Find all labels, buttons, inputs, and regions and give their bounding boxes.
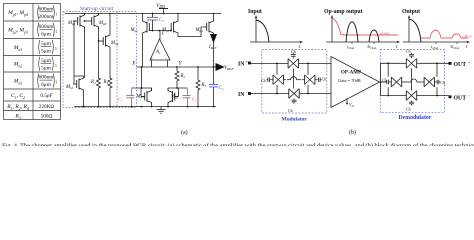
black decay curve — [409, 19, 421, 42]
svg-text:Mp1: Mp1 — [130, 28, 139, 33]
svg-text:X: X — [131, 61, 136, 67]
svg-text:6μm: 6μm — [41, 82, 52, 88]
chopper top (modulator) — [285, 59, 301, 69]
gate bus with node F — [149, 30, 171, 32]
input waveform plot — [248, 9, 303, 50]
output waveform plot — [402, 9, 473, 50]
Vref output tap — [216, 64, 234, 71]
resistor R3 — [196, 78, 200, 92]
svg-text:5μm: 5μm — [41, 41, 52, 47]
capacitor C4 (blue) — [209, 85, 218, 87]
input decay curve — [256, 20, 269, 42]
bottom rail — [251, 93, 286, 95]
chopper bottom (demodulator) — [404, 91, 420, 101]
clock stubs from rails to mid choppers — [276, 63, 278, 74]
svg-text:F: F — [161, 31, 165, 36]
axes — [250, 17, 301, 42]
input vertical at apex — [380, 63, 382, 95]
svg-text:C2: C2 — [192, 97, 197, 103]
top rail — [381, 62, 404, 64]
bottom rail — [381, 95, 404, 97]
svg-text:R5: R5 — [103, 80, 109, 85]
chopped hump 2 — [369, 30, 379, 42]
svg-text:200nm: 200nm — [39, 14, 55, 20]
svg-text:IN: IN — [238, 92, 245, 98]
svg-text:Mn1: Mn1 — [13, 45, 23, 52]
svg-text:Ch: Ch — [288, 108, 293, 113]
svg-text:tchop: tchop — [431, 44, 439, 50]
transistor Mp1 — [147, 22, 149, 33]
IN+ terminal — [238, 59, 251, 68]
svg-text:Ch: Ch — [406, 107, 411, 112]
svg-text:−: − — [165, 55, 168, 60]
svg-text:600nm: 600nm — [39, 6, 55, 12]
svg-text:5μm: 5μm — [41, 65, 52, 71]
device size table — [4, 4, 61, 120]
svg-text:+: + — [468, 60, 471, 65]
svg-text:Demodulator: Demodulator — [399, 115, 432, 121]
svg-text:(a): (a) — [181, 129, 188, 136]
transistor Mp6 — [88, 13, 99, 29]
transistor Mp5 — [74, 13, 85, 29]
svg-text:OP-AMP: OP-AMP — [341, 71, 361, 76]
chopper mid-left (demodulator) — [389, 77, 405, 87]
svg-text:220KΩ: 220KΩ — [39, 104, 55, 110]
clock stubs — [387, 63, 389, 76]
svg-text:1: 1 — [56, 13, 58, 17]
svg-text:5μm: 5μm — [41, 49, 52, 55]
svg-text:600nm: 600nm — [39, 75, 55, 81]
svg-text:Mn5: Mn5 — [65, 85, 74, 90]
IN- terminal — [238, 90, 251, 99]
modulator clock stubs with caps — [267, 53, 322, 104]
transistor Mn4 — [100, 33, 111, 49]
svg-text:Ch: Ch — [322, 77, 327, 82]
modulator dashed box — [262, 50, 327, 114]
svg-text:Ch: Ch — [291, 49, 296, 54]
svg-text:+: + — [151, 55, 154, 60]
svg-text:Op-amp output: Op-amp output — [324, 9, 363, 15]
svg-text:Mn1: Mn1 — [136, 95, 145, 100]
chopper bottom (modulator) — [286, 89, 302, 99]
(a) schematic — [63, 3, 234, 136]
svg-text:Mn2: Mn2 — [13, 62, 23, 69]
clipped figure caption at page bottom — [2, 142, 474, 149]
svg-text:Mn2: Mn2 — [170, 95, 179, 100]
svg-text:Mp2, Mp3: Mp2, Mp3 — [7, 28, 28, 35]
table value column: fractions with parens — [39, 6, 55, 88]
transistor Mn2 diode-connected — [168, 88, 188, 107]
svg-text:3tchop: 3tchop — [450, 44, 460, 50]
mid wire with hop — [404, 81, 410, 83]
chopper mid-right (demodulator) — [421, 77, 437, 87]
svg-text:Mp1, Mp4: Mp1, Mp4 — [7, 10, 28, 17]
svg-text:−: − — [468, 93, 471, 98]
chopper mid-right (modulator) — [302, 75, 318, 85]
clock coupling caps on mid leads (demodulator) — [387, 80, 440, 84]
modulator wires — [251, 63, 331, 93]
svg-text:VREF: VREF — [224, 65, 234, 71]
resistor R2 — [175, 69, 179, 83]
svg-text:C1: C1 — [118, 97, 123, 103]
bottom rail — [74, 106, 216, 108]
svg-text:Mn3: Mn3 — [13, 79, 23, 86]
OUT- terminal — [449, 93, 472, 102]
centre vertical between top and bottom choppers — [293, 69, 295, 89]
svg-text:A1: A1 — [155, 50, 161, 55]
svg-text:Vos: Vos — [349, 102, 355, 108]
op-amp output waveform plot — [324, 9, 400, 50]
op-amp A1 — [150, 39, 170, 67]
clock stub above top chopper — [411, 53, 413, 55]
chopped hump 1 — [346, 22, 358, 42]
capacitor C1 (red) — [126, 89, 134, 107]
svg-text:R1, R2, R4: R1, R2, R4 — [6, 104, 29, 111]
svg-text:Ch: Ch — [406, 49, 411, 54]
svg-text:600nm: 600nm — [39, 24, 55, 30]
clock stub below bottom chopper — [411, 101, 413, 103]
OUT+ terminal — [449, 60, 472, 69]
ground — [157, 107, 166, 114]
svg-text:Ch: Ch — [382, 77, 387, 82]
svg-text:Y: Y — [179, 61, 183, 67]
svg-text:1: 1 — [56, 30, 58, 34]
svg-text:3: 3 — [55, 64, 57, 68]
Vdd supply symbol — [84, 3, 215, 14]
svg-text:3: 3 — [55, 47, 57, 51]
svg-text:6μm: 6μm — [41, 31, 52, 37]
Iref current source arrow — [208, 35, 217, 51]
svg-text:Start-up circuit: Start-up circuit — [80, 6, 114, 12]
svg-text:C4: C4 — [219, 86, 224, 91]
svg-text:C3: C3 — [159, 18, 164, 23]
svg-text:500Ω: 500Ω — [41, 114, 53, 120]
svg-text:OUT: OUT — [454, 62, 467, 68]
svg-text:t: t — [466, 45, 468, 50]
svg-text:Modulator: Modulator — [282, 117, 308, 123]
transistor Mn5 diode-connected — [65, 20, 84, 106]
big parens drawn as curves — [38, 5, 55, 87]
offset source stub — [346, 98, 348, 103]
svg-text:Ch: Ch — [261, 78, 266, 83]
top rail — [251, 62, 286, 64]
start-up circuit dashed box — [63, 12, 137, 108]
svg-text:IREF: IREF — [208, 45, 217, 50]
X-Y output wire — [137, 67, 217, 107]
demodulator wires — [381, 53, 449, 106]
resistor R4 — [97, 76, 101, 90]
op-amp triangle — [331, 57, 380, 109]
svg-text:Gain = 70dB: Gain = 70dB — [338, 78, 361, 83]
transistor Mp4 — [203, 19, 214, 35]
svg-text:Output: Output — [402, 9, 420, 15]
svg-text:3tchop: 3tchop — [367, 44, 377, 50]
svg-text:(b): (b) — [349, 129, 356, 136]
svg-text:Input: Input — [248, 9, 262, 15]
svg-text:C1, C2: C1, C2 — [11, 93, 25, 100]
red decay-to-offset curve — [332, 18, 398, 35]
startup resistor bottom leads — [99, 90, 111, 107]
red residue curve — [421, 30, 468, 38]
svg-text:R3: R3 — [201, 83, 207, 88]
chopper top (demodulator) — [404, 59, 420, 69]
capacitor C2 (red) — [183, 89, 191, 107]
svg-text:Ch: Ch — [440, 80, 445, 85]
capacitor C3 (blue) — [147, 17, 158, 20]
transistor Mp3 — [171, 22, 173, 33]
top supply rail — [65, 13, 221, 15]
transistor Mn1 diode-connected — [132, 88, 152, 107]
svg-text:offset: offset — [380, 31, 390, 36]
startup wires — [74, 14, 110, 79]
centre vertical — [411, 68, 413, 90]
junction dots modulator — [276, 63, 309, 95]
apex to mid-left chopper with clock cap — [381, 81, 387, 83]
svg-text:IN: IN — [238, 62, 245, 68]
svg-text:Fig. 4. The chopper amplifie: Fig. 4. The chopper amplifier used in th… — [2, 142, 474, 146]
svg-text:R2: R2 — [180, 74, 186, 79]
mid wire with hop — [287, 79, 291, 81]
demodulator dashed box — [380, 50, 444, 113]
svg-text:0.5pF: 0.5pF — [40, 93, 53, 99]
svg-text:OUT: OUT — [454, 96, 467, 102]
resistor R5 — [108, 76, 112, 90]
svg-text:5μm: 5μm — [41, 58, 52, 64]
svg-text:offset: offset — [463, 34, 473, 39]
svg-text:Mn4: Mn4 — [110, 41, 119, 46]
start-up internal dashed divider — [116, 12, 118, 108]
svg-text:1: 1 — [56, 81, 58, 85]
svg-text:Mp4: Mp4 — [195, 28, 204, 33]
svg-text:R4: R4 — [90, 80, 96, 85]
svg-text:Mp6: Mp6 — [98, 21, 107, 26]
svg-text:tchop: tchop — [347, 44, 355, 50]
chopper mid-left (modulator) — [270, 75, 286, 85]
svg-text:R3: R3 — [14, 114, 20, 121]
